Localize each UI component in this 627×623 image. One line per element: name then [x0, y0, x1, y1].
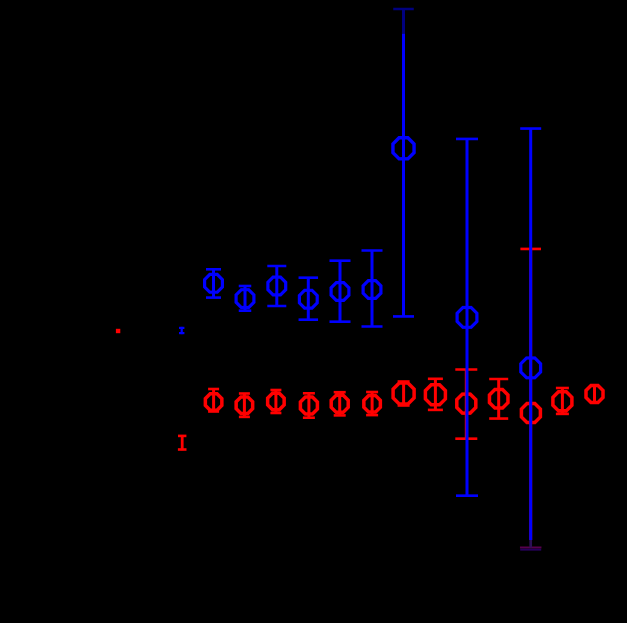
blue point b2 marker [236, 290, 254, 308]
red point r9 error bar line [465, 370, 468, 439]
red point r3 error bar line [274, 390, 277, 413]
blue point b7 marker [393, 138, 414, 159]
red point r8 error bar line [434, 379, 437, 410]
red point r3 bottom cap [270, 412, 281, 415]
blue point b2 top cap [239, 285, 252, 288]
red small error bar line at x=182 [181, 435, 184, 451]
red small error bar top cap [178, 435, 186, 438]
red point r1 bottom cap [208, 410, 219, 413]
blue point b1 error bar line [212, 269, 215, 297]
red point r4 bottom cap [303, 416, 315, 419]
red point r11 bottom cap (dim, outside axes) [520, 546, 542, 548]
blue point b2 error bar line [244, 286, 247, 311]
red point r4 marker [300, 397, 317, 414]
red point r8 top cap [428, 377, 443, 380]
blue/red b9-r11 dim error bar segment below axes [529, 540, 532, 548]
blue point b3 marker [268, 277, 286, 295]
red point r3 marker [268, 393, 285, 410]
red point r3 top cap [270, 389, 281, 392]
blue point b6 top cap [362, 249, 383, 252]
blue point b9 marker [521, 358, 541, 378]
red point r4 top cap [303, 392, 315, 395]
blue point b6 error bar line [371, 251, 374, 327]
red point r7 marker [393, 383, 414, 404]
red point r5 top cap [334, 391, 346, 394]
blue point b5 marker [331, 283, 349, 301]
blue point b6 marker [363, 281, 381, 299]
red point r10 bottom cap [489, 417, 508, 420]
blue point b7 error bar upper segment (dim) [402, 9, 405, 34]
blue small error bar line at x=182 [181, 327, 183, 334]
red point r2 marker [236, 397, 253, 414]
blue point b9 error bar line [529, 129, 532, 540]
blue point b7 top cap (dim, outside axes) [393, 8, 414, 11]
blue point b5 error bar line [339, 261, 342, 322]
blue small error bar bottom cap [179, 332, 184, 334]
red point r6 error bar line [371, 392, 374, 415]
blue point b3 error bar line [275, 266, 278, 306]
red point r1 marker [205, 394, 222, 411]
red point r7 error bar line [402, 382, 405, 406]
red point r6 top cap [366, 391, 378, 394]
red square marker (leftmost red point) [116, 329, 120, 333]
red point r9 bottom cap [455, 437, 477, 440]
blue point b1 top cap [206, 268, 221, 271]
red point r8 marker [425, 385, 445, 405]
blue point b9 bottom cap (dim, outside axes) [520, 549, 541, 551]
red point r10 top cap [489, 378, 508, 381]
red point r8 bottom cap [428, 409, 443, 412]
blue point b7 error bar line [402, 34, 405, 317]
red point r2 top cap [239, 392, 250, 395]
red point r12 top cap [556, 387, 569, 390]
red point r1 error bar line [212, 389, 215, 412]
red point r11 error bar line (inside axes) [529, 249, 532, 540]
blue point b4 bottom cap [299, 318, 319, 321]
blue point b5 bottom cap [330, 320, 351, 323]
red point r9 top cap [455, 368, 477, 371]
red small error bar bottom cap [178, 448, 187, 451]
red point r12 bottom cap [556, 413, 569, 416]
red point r1 top cap [208, 388, 219, 391]
red point r9 marker [457, 394, 476, 413]
red point r11 marker [521, 404, 540, 423]
blue point b3 top cap [267, 265, 286, 268]
blue point b8 error bar line [466, 139, 469, 496]
red point r11 top cap [520, 248, 541, 251]
blue point b2 bottom cap [239, 309, 252, 312]
blue point b4 error bar line [307, 278, 310, 320]
blue point b8 top cap [456, 138, 478, 141]
red point r7 top cap [398, 380, 410, 383]
red point r6 marker [364, 396, 381, 413]
blue point b7 bottom cap [393, 315, 414, 318]
red point r10 marker [489, 390, 508, 409]
blue small error bar top cap [179, 327, 184, 329]
blue point b3 bottom cap [267, 305, 286, 308]
red point r7 bottom cap [398, 404, 410, 407]
blue point b1 marker [205, 274, 223, 292]
blue point b5 top cap [330, 259, 351, 262]
blue point b9 top cap [520, 127, 541, 130]
red point r5 bottom cap [334, 414, 346, 417]
blue point b8 bottom cap [456, 494, 478, 497]
red point r4 error bar line [307, 393, 310, 417]
blue point b4 top cap [299, 276, 319, 279]
red point r5 marker [331, 395, 348, 412]
red point r5 error bar line [338, 392, 341, 415]
blue point b1 bottom cap [206, 296, 221, 299]
red point r13 marker [586, 386, 603, 403]
red point r6 bottom cap [366, 414, 378, 417]
red point r10 error bar line [497, 379, 500, 419]
red point r2 error bar line [243, 394, 246, 417]
red point r2 bottom cap [239, 416, 250, 419]
blue point b8 marker [457, 308, 477, 328]
red point r12 error bar line [561, 388, 564, 414]
red point r13 error bar line [593, 385, 596, 403]
red point r12 marker [553, 392, 572, 411]
blue point b4 marker [299, 290, 317, 308]
blue point b6 bottom cap [362, 325, 383, 328]
